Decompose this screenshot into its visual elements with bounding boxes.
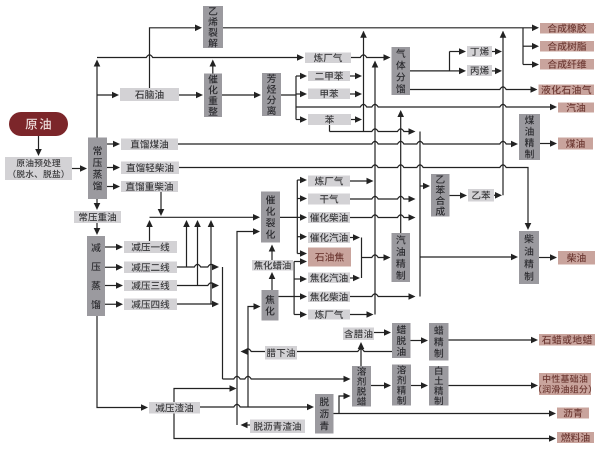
wire asphalt line (334, 393, 557, 417)
box 白土精制 (429, 366, 449, 406)
wire diesel bus (146, 214, 260, 304)
wire atm->srkero (107, 141, 120, 148)
box 直馏重柴油 (121, 181, 178, 192)
wire gasfrac->butene/propene (410, 48, 466, 74)
wire kerosene line (178, 141, 518, 148)
box 减压二线 (124, 262, 177, 274)
wire vacdist->vac2 (105, 264, 123, 271)
wire waxdeoil->waxrefine (411, 337, 429, 344)
box 石油焦 (308, 248, 351, 267)
wire vacdist->vacresid (97, 316, 148, 411)
wire deasphresid line (241, 422, 251, 429)
wire naphtha->ethcrack (150, 25, 203, 89)
wire light diesel line (179, 165, 531, 230)
box 减压三线 (124, 280, 177, 291)
box 中性基础油 (539, 373, 591, 395)
wire drygas line (350, 196, 416, 203)
wire coker bracket (279, 258, 308, 318)
wire aromatics bus (350, 31, 367, 132)
box 燃料油 (557, 432, 594, 443)
box 苯 (308, 114, 351, 125)
box 汽油精制 (392, 233, 411, 282)
box 蜡脱油 (392, 323, 411, 358)
wire vacdist->vac4 (105, 301, 123, 308)
box 原油 (crude oil pill) (9, 112, 68, 136)
box 沥青 (557, 408, 589, 419)
box 减压渣油 (149, 402, 200, 414)
box 石蜡或地蜡 (539, 334, 595, 346)
box 焦化 (262, 290, 279, 321)
box 直馏轻柴油 (121, 162, 179, 175)
wire gas header (97, 54, 304, 61)
wire cokerdiesel line (350, 293, 416, 300)
wire vac3 line (177, 282, 219, 289)
box 煤油精制 (519, 114, 540, 160)
box 芳烃分离 (262, 73, 281, 116)
wire lube bus (223, 267, 351, 382)
wire kerorefine->kerosene (540, 140, 557, 147)
wire refgas1->gasfrac (351, 54, 391, 61)
box 减压四线 (124, 299, 177, 311)
box 催化柴油 (308, 212, 350, 223)
wire top bracket resin/fiber (523, 28, 539, 68)
box 乙苯 (468, 189, 494, 202)
box 焦化蜡油 (252, 260, 293, 271)
wire mixed bus (420, 132, 518, 297)
wire fcc bracket (280, 177, 307, 257)
wire catreform riser (210, 60, 217, 74)
wire aromsep bracket (281, 73, 307, 123)
wire ethylbenzene->bus (494, 192, 502, 199)
box 脱沥青渣油 (250, 420, 305, 434)
wire vac4 line (177, 301, 219, 308)
box 腊下油 (265, 346, 297, 360)
wire waxrefine->paraffin (449, 337, 539, 344)
box 直馏煤油 (121, 139, 178, 151)
box 乙烯裂解 (203, 6, 223, 48)
wire atm top riser (94, 60, 119, 138)
wire refgas bus (350, 61, 378, 318)
box 柴油精制 (519, 231, 539, 284)
wire clayrefine->baseoil (449, 382, 539, 389)
wire atmresid->vacdist (94, 223, 101, 235)
wire pretreat->atm (72, 165, 87, 172)
wire top products line (223, 25, 539, 32)
box 柴油 (558, 251, 595, 265)
wire benzene line (330, 125, 416, 135)
box 合成纤维 (540, 59, 594, 70)
wire vacresid->deasph (200, 404, 314, 411)
box 石脑油 (120, 88, 179, 101)
wire naphtha->catreform (179, 92, 203, 99)
wire vacdist->vac3 (105, 282, 123, 289)
box 脱沥青 (315, 394, 334, 434)
wire ebsynth->ethylbenzene (450, 192, 468, 199)
wire atm->atmresid (94, 199, 101, 210)
wire gasfrac->lpg (410, 86, 538, 93)
wire catreform->aromsep (222, 92, 261, 99)
box 催化重整 (204, 74, 222, 118)
wire gasoline collector (350, 234, 391, 281)
wire gasrefine riser (397, 110, 404, 233)
box 二甲苯 (308, 71, 350, 81)
wire vacresid riser (174, 385, 237, 402)
box 合成橡胶 (540, 23, 594, 34)
wire solvdewax->solvrefine (371, 382, 391, 389)
box 蜡精制 (429, 323, 449, 361)
wire crude->pretreat (35, 136, 42, 156)
box 常压蒸馏 (88, 138, 107, 200)
box 乙苯合成 (431, 174, 450, 217)
wire coking->cokerwax (269, 272, 276, 290)
box 炼厂气 (308, 176, 350, 187)
wire atm->srlight (107, 164, 120, 171)
wire waxyoil->waxdeoil (374, 329, 391, 336)
box 催化裂化 (261, 192, 280, 243)
box 常压重油 (74, 211, 121, 223)
box 炼厂气 (305, 53, 351, 64)
box 含腊油 (343, 328, 374, 341)
wire dieselrefine->diesel (539, 254, 557, 261)
wire solvrefine->clayrefine (411, 382, 428, 389)
box 汽油 (558, 103, 594, 113)
wire solvdewax->waxyoil (358, 342, 365, 366)
box 原油预处理 (5, 157, 72, 180)
wire vac2 line (177, 264, 219, 271)
box 液化石油气 (539, 85, 595, 96)
box 丁烯 (467, 46, 492, 57)
box 减压一线 (124, 241, 177, 253)
wire coking feed bus (248, 303, 261, 407)
wire fueloil line (174, 414, 556, 442)
box 催化汽油 (308, 232, 350, 243)
box 煤油 (558, 138, 593, 150)
box 焦化汽油 (308, 273, 350, 284)
box 干气 (308, 194, 350, 205)
wire cokerwax->fcc (269, 245, 276, 261)
wire waxbottom line (241, 348, 393, 355)
wire recycle bus (237, 228, 260, 425)
wire gasoline header (296, 104, 557, 111)
box 气体分馏 (392, 47, 411, 95)
box 减压蒸馏 (87, 236, 105, 316)
box 溶剂脱蜡 (352, 366, 371, 407)
wire product bus (492, 31, 506, 196)
wire vacdist->vac1 (105, 244, 123, 251)
box 甲苯 (308, 89, 350, 100)
box 炼厂气 (308, 310, 350, 320)
box 溶剂精制 (392, 365, 411, 406)
box 丙烯 (467, 65, 492, 76)
wire atm->srheavy (107, 183, 120, 190)
box 焦化柴油 (308, 292, 350, 303)
box 合成树脂 (540, 41, 594, 52)
wire heavy diesel drop (158, 192, 165, 216)
wire catdiesel line (350, 214, 416, 221)
